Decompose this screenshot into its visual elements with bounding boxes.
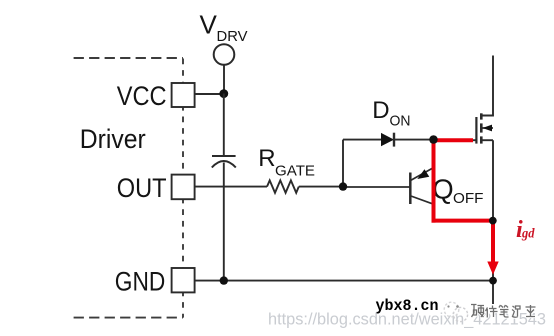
node A junction xyxy=(339,182,347,190)
node red path / source junction xyxy=(489,217,497,225)
node source-GND junction xyxy=(489,277,497,285)
node VCC junction xyxy=(219,89,228,98)
bypass capacitor xyxy=(212,156,236,168)
transistor Q_OFF (PNP) xyxy=(410,168,433,205)
wire node to bypass capacitor xyxy=(223,94,225,156)
wire node A up to diode branch xyxy=(342,140,344,187)
power MOSFET symbol xyxy=(476,113,493,143)
watermark logo text (vector strokes for CJK) xyxy=(471,305,536,318)
svg-text:gd: gd xyxy=(521,226,535,241)
svg-text:GATE: GATE xyxy=(275,164,315,180)
wire branch to diode anode xyxy=(343,139,382,141)
watermark logo icon xyxy=(444,302,467,321)
label i_gd current xyxy=(516,217,535,243)
node B junction (diode / gate / Q_OFF emitter) xyxy=(429,135,437,143)
svg-text:ybx8.cn: ybx8.cn xyxy=(376,297,439,315)
power MOSFET body arrow xyxy=(482,125,492,132)
label R_GATE xyxy=(258,145,315,180)
svg-text:Driver: Driver xyxy=(80,124,146,154)
power MOSFET drain wire xyxy=(481,56,493,116)
pin box VCC xyxy=(172,83,195,107)
svg-text:R: R xyxy=(258,145,275,172)
voltage source V_DRV label xyxy=(200,10,248,46)
wire GND rail xyxy=(195,280,493,282)
wire OUT to R_GATE xyxy=(195,186,267,188)
svg-text:VCC: VCC xyxy=(117,81,167,111)
wire R_GATE to node A xyxy=(299,186,343,188)
Q_OFF emitter arrow xyxy=(417,169,429,179)
label D_ON xyxy=(372,97,410,130)
wire node A to Q_OFF base xyxy=(343,186,410,188)
node B dot over red xyxy=(429,135,437,143)
wire diode cathode to node B xyxy=(394,139,434,141)
wire V_DRV to VCC node xyxy=(223,65,225,94)
wire source stub below GND xyxy=(492,281,494,304)
svg-text:V: V xyxy=(200,10,218,40)
svg-text:Q: Q xyxy=(432,174,453,205)
voltage source V_DRV circle xyxy=(214,44,235,65)
red current path (gate discharge) xyxy=(434,140,494,263)
wire capacitor to GND node xyxy=(223,163,225,281)
svg-text:OUT: OUT xyxy=(117,173,167,203)
svg-text:DRV: DRV xyxy=(217,29,248,45)
power MOSFET gate stub xyxy=(468,139,476,141)
node GND bypass junction xyxy=(220,276,228,284)
driver IC dashed boundary xyxy=(74,58,183,318)
diode D_ON xyxy=(381,133,394,147)
label Q_OFF xyxy=(432,174,483,207)
svg-text:D: D xyxy=(372,97,389,124)
pin box GND xyxy=(172,268,195,292)
svg-text:OFF: OFF xyxy=(453,190,484,207)
svg-text:GND: GND xyxy=(115,266,166,296)
power MOSFET source wire xyxy=(492,140,494,280)
pin box OUT xyxy=(172,175,195,200)
wire VCC box to node xyxy=(195,93,224,95)
svg-text:ON: ON xyxy=(390,114,411,130)
red current arrowhead xyxy=(487,262,498,275)
resistor R_GATE xyxy=(267,180,299,192)
